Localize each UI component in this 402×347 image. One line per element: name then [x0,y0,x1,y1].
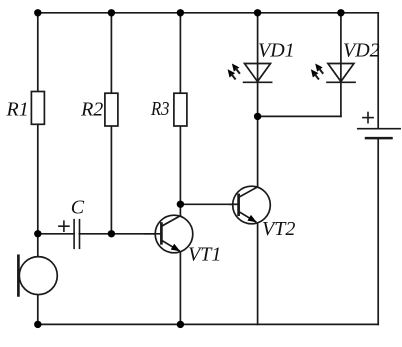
wire VD1 / VT2 branch vertical upper [257,13,259,187]
svg-text:VD2: VD2 [343,40,380,62]
svg-text:VD1: VD1 [258,40,295,62]
wire R2 branch vertical [110,13,112,234]
LED VD1 emission arrows [225,61,242,81]
battery GB1 polarity plus [363,113,373,123]
wire VD2 branch vertical [340,13,342,117]
wire capacitor left segment [38,233,74,235]
wire LED cathodes horizontal [258,115,341,117]
wire battery branch lower [377,138,379,324]
transistor VT2 [230,186,270,225]
wire R3 / VT1 branch vertical upper [179,13,181,217]
svg-text:R2: R2 [80,99,103,121]
node LED cathode junction [254,113,261,120]
microphone BM1 body [19,257,57,295]
node top rail at R3 [177,9,184,16]
svg-text:R1: R1 [6,99,29,121]
transistor VT1 [145,215,193,254]
LED VD2 [327,64,355,83]
node R2 bottom junction [108,230,115,237]
node bottom rail at VT1 [177,321,184,328]
node top rail at VD1 [254,9,261,16]
wire bottom rail [38,323,378,325]
capacitor C polarity plus [59,221,69,231]
resistor R3 [174,93,187,126]
svg-text:VT1: VT1 [188,244,221,266]
resistor R1 [31,92,44,125]
wire battery branch upper [377,13,379,129]
wire capacitor to VT1 base [79,233,161,235]
wire VT1 collector to VT2 base [180,203,238,205]
node top rail at R2 [108,9,115,16]
svg-text:VT2: VT2 [262,218,295,240]
svg-text:C: C [71,197,85,219]
microphone BM1 membrane bar [17,256,20,296]
LED VD1 [244,64,272,83]
battery GB1 positive plate [358,128,400,130]
capacitor C plates [74,220,79,249]
node top rail at R1 [34,9,41,16]
wire left branch (R1/mic) vertical [37,13,39,325]
wire VT1 emitter to bottom rail [179,252,181,325]
node capacitor left junction [34,230,41,237]
node top rail at VD2 [337,9,344,16]
resistor R2 [105,93,118,126]
node bottom rail left [34,321,41,328]
svg-text:R3: R3 [150,98,169,120]
LED VD2 emission arrows [308,61,325,81]
battery GB1 negative plate [366,137,392,140]
node VT1 collector junction [177,201,184,208]
wire VT2 emitter to bottom rail [257,223,259,325]
wire top rail [38,12,378,14]
